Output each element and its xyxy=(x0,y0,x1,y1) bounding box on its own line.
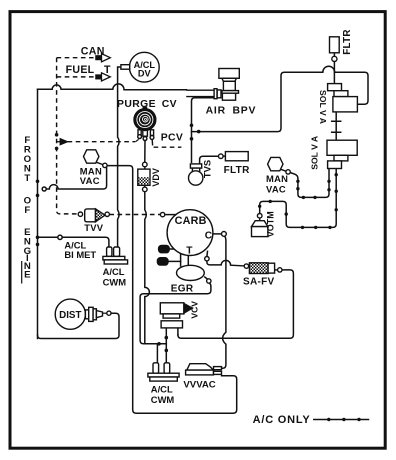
wire purge cv to vdv xyxy=(144,141,146,163)
TVV valve xyxy=(78,209,109,222)
wire VCV stem xyxy=(165,328,167,363)
svg-text:MAN: MAN xyxy=(266,173,288,184)
svg-text:PCV: PCV xyxy=(161,132,183,143)
wire dashed vertical to TVV xyxy=(57,58,79,214)
AIR BPV xyxy=(186,69,239,101)
junction and A/C style dots xyxy=(36,180,40,184)
svg-text:CWM: CWM xyxy=(103,277,127,288)
wire man-vac to front line xyxy=(46,167,106,189)
wire dist loop xyxy=(38,313,120,338)
svg-text:CWM: CWM xyxy=(151,394,175,405)
svg-text:F: F xyxy=(24,205,30,216)
A/CL CWM lower xyxy=(148,363,179,381)
wire dashed FUEL T line xyxy=(57,76,96,78)
svg-text:VDV: VDV xyxy=(151,168,161,187)
wire carb T stub xyxy=(181,254,189,266)
wire carb T nipple2 link xyxy=(168,260,181,262)
svg-text:T: T xyxy=(104,64,111,76)
wire dashed CAN line xyxy=(57,57,96,59)
wire main manifold hose line xyxy=(38,84,187,90)
EGR valve xyxy=(177,265,212,283)
node hose port circle xyxy=(42,187,46,191)
wire A/C branch from AIR BPV to solenoid xyxy=(192,66,369,131)
purge CV body xyxy=(134,107,156,146)
svg-text:TVV: TVV xyxy=(84,222,104,233)
svg-text:A/C ONLY: A/C ONLY xyxy=(253,414,311,426)
arrow CAN xyxy=(96,56,102,60)
FLTR vertical top right xyxy=(330,37,340,62)
wire solenoid1 to solenoid2 xyxy=(335,112,337,140)
svg-text:VCV: VCV xyxy=(189,301,199,319)
svg-text:VOTM: VOTM xyxy=(266,211,276,237)
svg-text:SA-FV: SA-FV xyxy=(243,277,275,288)
wire TVS to FLTR-H xyxy=(200,156,219,164)
wire TVV out to carb xyxy=(165,214,176,216)
svg-text:VAC: VAC xyxy=(80,175,100,186)
CARB circle xyxy=(157,210,226,265)
wire FLTR to solenoid 1 xyxy=(333,53,335,84)
VOTM motor xyxy=(252,214,268,237)
wire left CWM leg drop xyxy=(156,344,158,363)
svg-text:FLTR: FLTR xyxy=(342,29,353,55)
svg-text:SOL V A: SOL V A xyxy=(318,90,328,124)
wire vdv drop to line A xyxy=(145,192,150,344)
solenoid 2 SOL V A xyxy=(327,140,357,168)
svg-text:EGR: EGR xyxy=(171,283,194,294)
solenoid 1 SOL V A xyxy=(328,84,358,112)
wire AIR BPV lower port down to TVS xyxy=(192,98,214,163)
svg-text:DIST: DIST xyxy=(59,310,81,321)
svg-text:VVVAC: VVVAC xyxy=(183,379,215,390)
SA-FV valve xyxy=(244,263,282,274)
wire solenoid2 to VOTM xyxy=(260,169,337,228)
wire dist port xyxy=(103,312,107,314)
svg-text:TVS: TVS xyxy=(202,160,213,178)
wire man vac right to solenoid2 xyxy=(290,169,329,198)
wire man-vac right branch long (to bottom loop and VVVAC) xyxy=(107,166,237,414)
DIST distributor xyxy=(55,299,111,329)
VCV valve xyxy=(160,303,192,328)
A/CL CWM upper xyxy=(103,247,128,264)
svg-text:E: E xyxy=(24,270,31,281)
wire EGR line and drop xyxy=(140,283,211,344)
arrow on purge dashed line xyxy=(57,141,61,143)
svg-text:PURGE CV: PURGE CV xyxy=(117,99,177,110)
FLTR horizontal xyxy=(219,152,249,161)
svg-text:FLTR: FLTR xyxy=(224,165,250,176)
VVVAC valve xyxy=(186,364,222,375)
wire A/C only legend line xyxy=(314,419,369,421)
svg-text:C: C xyxy=(205,230,213,241)
svg-text:T: T xyxy=(186,246,193,257)
wire dashed PCV line xyxy=(154,146,182,148)
svg-text:CAN: CAN xyxy=(81,46,105,58)
svg-text:FUEL: FUEL xyxy=(66,64,95,76)
wire C-port line xyxy=(213,233,222,235)
wire SA-FV feed from carb base xyxy=(206,251,209,256)
svg-text:A/CL: A/CL xyxy=(151,384,173,395)
svg-text:SOL V A: SOL V A xyxy=(309,136,319,170)
VDV valve xyxy=(138,162,150,192)
underline for ENGINE xyxy=(21,261,23,284)
wire VCV right branch xyxy=(177,328,179,335)
svg-text:DV: DV xyxy=(138,68,152,78)
wire SA-FV return line xyxy=(178,270,294,338)
arrow FUEL T xyxy=(96,75,102,79)
svg-text:A/CL: A/CL xyxy=(103,266,125,277)
A/CL DV valve circle xyxy=(129,52,159,82)
wire A/CL BI MET line xyxy=(38,236,58,238)
wire dashed TVV to carb xyxy=(109,214,160,216)
svg-text:BI MET: BI MET xyxy=(64,249,96,260)
wire front-of-engine vertical xyxy=(37,89,39,338)
svg-text:T: T xyxy=(24,173,30,184)
label FRONT OF ENGINE (vertical letters) xyxy=(24,135,32,281)
svg-text:CARB: CARB xyxy=(175,215,207,227)
wire EGR port stub xyxy=(205,277,208,279)
TVS valve xyxy=(189,164,203,185)
svg-text:VAC: VAC xyxy=(266,184,286,195)
svg-text:AIR BPV: AIR BPV xyxy=(206,105,257,116)
MAN VAC hexagon right xyxy=(268,157,291,174)
wire dashed purge line xyxy=(68,141,136,143)
MAN VAC hexagon left xyxy=(84,150,108,168)
wire A/CL DV drop to A/CL CWM xyxy=(118,67,121,247)
